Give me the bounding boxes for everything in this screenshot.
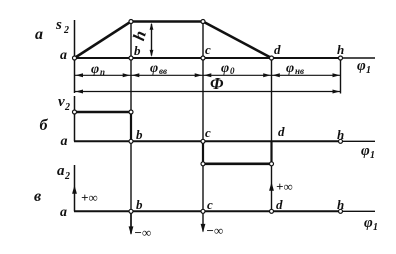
x-axis a2 plot thin extension [341, 210, 376, 212]
svg-text:φ: φ [361, 143, 370, 159]
svg-text:1: 1 [373, 222, 378, 233]
axis label phi1 top [357, 58, 371, 76]
svg-text:a: a [60, 48, 67, 63]
svg-text:b: b [134, 43, 141, 58]
svg-text:h: h [337, 197, 344, 212]
h dimension arrow [150, 23, 154, 57]
node h bottom axis [339, 209, 343, 213]
impulse up arrowhead at d [269, 182, 274, 191]
s2 curve rise a-b [75, 22, 132, 59]
tick at h [340, 58, 342, 94]
node h top [339, 56, 343, 60]
impulse down arrowhead at c [201, 224, 206, 233]
row1 arrowhead right at c [195, 73, 203, 77]
node b mid axis [129, 139, 133, 143]
svg-text:1: 1 [370, 150, 375, 161]
node a top [73, 56, 77, 60]
node v2 corner c low [201, 162, 205, 166]
svg-text:Φ: Φ [210, 74, 224, 93]
gridline d [271, 58, 273, 211]
axis label phi1 bottom [364, 215, 378, 233]
svg-text:c: c [205, 42, 211, 57]
svg-text:h: h [337, 127, 344, 142]
svg-text:v: v [58, 94, 65, 110]
svg-text:в: в [34, 188, 41, 205]
svg-text:h: h [337, 42, 344, 57]
dimension row 1 line [75, 74, 341, 76]
node c top axis [201, 56, 205, 60]
svg-text:φ: φ [150, 61, 158, 76]
svg-text:а: а [35, 26, 43, 43]
svg-text:a: a [60, 205, 67, 220]
row2 arrowhead left [76, 90, 84, 94]
node c bottom axis [201, 209, 205, 213]
v2 pulse top a-b [75, 111, 132, 114]
svg-text:a: a [57, 163, 65, 179]
row1 arrowhead right at d [263, 73, 271, 77]
v2 pulse edge at d [270, 141, 272, 164]
svg-text:1: 1 [366, 65, 371, 76]
svg-text:−∞: −∞ [206, 223, 223, 238]
impulse down shaft at b [130, 211, 132, 233]
svg-text:б: б [40, 117, 49, 134]
svg-text:d: d [276, 197, 283, 212]
x-axis v2 plot [74, 140, 341, 142]
axis label s2 [55, 17, 69, 36]
svg-text:c: c [205, 125, 211, 140]
node v2 corner d low [270, 162, 274, 166]
row1 arrowhead left at b [132, 73, 140, 77]
label phi_o [221, 61, 235, 76]
x-axis s2 plot thin extension [341, 57, 376, 59]
svg-text:φ: φ [91, 62, 99, 77]
svg-text:φ: φ [357, 58, 366, 74]
svg-text:+∞: +∞ [81, 190, 98, 205]
axis label v2 [58, 94, 70, 113]
row1 arrowhead left at d [272, 73, 280, 77]
node d bottom axis [270, 209, 274, 213]
node v2 left corner [73, 110, 77, 114]
impulse up arrowhead at a [72, 185, 77, 194]
plateau corner b [129, 20, 133, 24]
row2 arrowhead right [333, 90, 341, 94]
svg-text:вв: вв [159, 66, 167, 76]
svg-text:+∞: +∞ [276, 179, 293, 194]
svg-text:нв: нв [295, 66, 304, 76]
plateau corner c [201, 20, 205, 24]
v2 pulse edge at b [130, 112, 132, 141]
svg-text:c: c [207, 197, 213, 212]
svg-text:b: b [136, 197, 143, 212]
node c mid axis [201, 139, 205, 143]
x-axis a2 plot [74, 210, 341, 212]
node d top [270, 56, 274, 60]
y-axis s2 plot [74, 20, 76, 93]
svg-text:b: b [136, 127, 143, 142]
svg-text:φ: φ [286, 61, 294, 76]
row1 arrowhead right at h [333, 73, 341, 77]
node v2 corner b [129, 110, 133, 114]
svg-text:s: s [55, 17, 62, 33]
label phi_p [91, 62, 105, 77]
label phi_vv [150, 61, 167, 76]
svg-text:0: 0 [230, 66, 235, 76]
svg-text:2: 2 [64, 171, 70, 182]
v2 pulse edge at c [202, 141, 204, 164]
svg-text:d: d [278, 124, 285, 139]
gridline c [202, 22, 204, 232]
node b top axis [129, 56, 133, 60]
svg-text:a: a [61, 134, 68, 149]
row1 arrowhead left at a [76, 73, 84, 77]
svg-text:−∞: −∞ [134, 225, 151, 240]
x-axis s2 plot [74, 57, 341, 59]
svg-text:2: 2 [64, 102, 70, 113]
y-axis a2 plot [74, 165, 76, 211]
s2 curve plateau b-c [131, 20, 203, 23]
x-axis v2 plot thin extension [341, 140, 376, 142]
node b bottom axis [129, 209, 133, 213]
s2 curve fall c-d [203, 22, 272, 59]
svg-text:d: d [274, 42, 281, 57]
svg-text:п: п [100, 67, 105, 77]
impulse down arrowhead at b [129, 226, 134, 235]
v2 pulse bottom c-d [203, 163, 272, 166]
gridline b [130, 22, 132, 235]
axis label a2 [57, 163, 70, 182]
row1 arrowhead left at c [204, 73, 212, 77]
svg-text:2: 2 [63, 25, 69, 36]
row1 arrowhead right at b [123, 73, 131, 77]
node h mid axis [339, 139, 343, 143]
axis label phi1 mid [361, 143, 375, 161]
svg-text:φ: φ [364, 215, 373, 231]
dimension row 2 line Phi [75, 91, 341, 93]
y-axis v2 plot [74, 96, 76, 141]
label phi_nv [286, 61, 304, 76]
